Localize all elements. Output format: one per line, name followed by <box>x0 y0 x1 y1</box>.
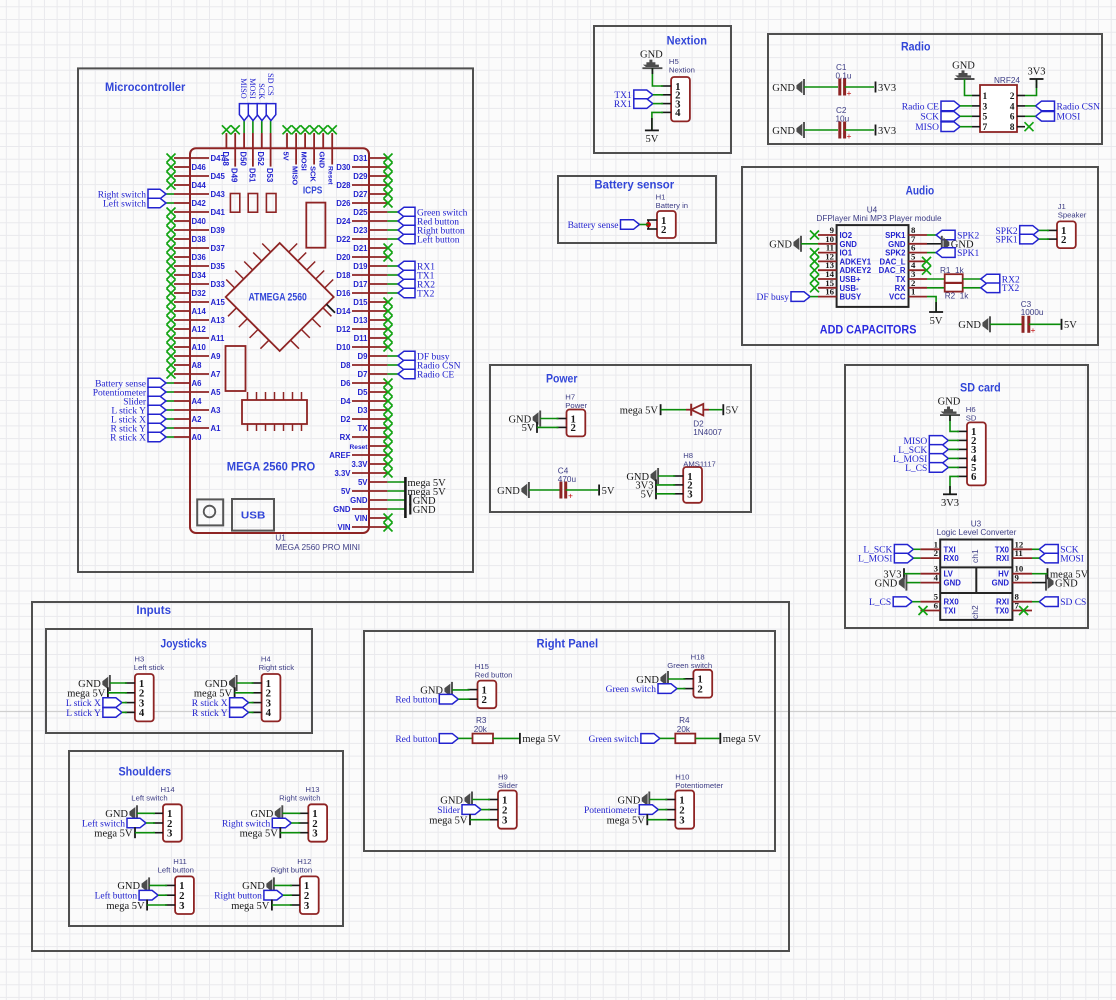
section box Inputs <box>32 602 789 951</box>
svg-text:D34: D34 <box>192 271 207 280</box>
H3 pin 1 <box>125 682 135 684</box>
diamond lower-left pin tick 2 <box>239 319 248 328</box>
no-connect U4 USB+ <box>810 275 819 284</box>
svg-text:D42: D42 <box>192 199 207 208</box>
U1 right pin D7 <box>369 373 387 375</box>
svg-text:A13: A13 <box>211 316 226 325</box>
wire to R stick X <box>166 436 174 438</box>
U1 right pin D31 <box>369 157 387 159</box>
svg-text:4: 4 <box>675 107 681 119</box>
U1 top pin MOSI <box>304 133 306 148</box>
wire C2 to 3V3 <box>845 129 874 131</box>
svg-text:3V3: 3V3 <box>1027 67 1045 78</box>
svg-text:7: 7 <box>983 123 988 133</box>
svg-text:D38: D38 <box>192 235 207 244</box>
svg-text:GND: GND <box>772 126 795 137</box>
crystal tick bottom <box>274 424 276 431</box>
U1 left pin D40 <box>174 220 190 222</box>
no-connect D40 <box>167 217 176 226</box>
power 5V (D2) <box>722 404 724 415</box>
connector H8 AMS1117 <box>683 467 702 503</box>
svg-text:D39: D39 <box>211 226 226 235</box>
wire U3 pin10 to mega 5V <box>1032 573 1048 575</box>
H9 pin 3 <box>488 819 498 821</box>
crystal tick bottom <box>292 424 294 431</box>
H13 pin 2 <box>298 822 308 824</box>
svg-text:mega 5V: mega 5V <box>429 816 468 827</box>
wire R3 to mega 5V <box>493 737 519 739</box>
svg-text:D40: D40 <box>192 217 207 226</box>
net label TX1 <box>634 90 653 100</box>
wire D52 to label <box>261 121 263 133</box>
U1 left pin D32 <box>174 292 190 294</box>
net label SCK (radio) <box>941 112 960 122</box>
net label Left button <box>398 234 415 244</box>
svg-text:mega 5V: mega 5V <box>607 816 646 827</box>
U3 pin 11 RXI <box>1012 557 1032 559</box>
wire to Potentiometer <box>166 391 174 393</box>
power GND (H13) <box>281 805 283 821</box>
H10 pin 1 <box>665 799 675 801</box>
U4 pin 4 DAC_R <box>909 269 928 271</box>
svg-text:HV: HV <box>998 570 1010 579</box>
svg-text:D14: D14 <box>336 307 351 316</box>
svg-text:Right stick: Right stick <box>259 663 295 672</box>
svg-text:Audio: Audio <box>906 185 935 197</box>
no-connect D20 <box>384 253 393 262</box>
svg-text:D3: D3 <box>358 406 369 415</box>
svg-text:mega 5V: mega 5V <box>522 734 561 745</box>
svg-text:D4: D4 <box>341 397 352 406</box>
svg-text:5V: 5V <box>645 134 658 145</box>
H8 pin 3 <box>673 493 683 495</box>
svg-text:D11: D11 <box>354 334 369 343</box>
no-connect D39 <box>167 226 176 235</box>
connector H3 Left stick <box>135 674 154 721</box>
wire GND to H7 pin1 <box>540 418 558 420</box>
svg-text:GND: GND <box>769 240 792 251</box>
svg-text:D46: D46 <box>192 163 207 172</box>
capacitor C4 470u <box>559 482 562 499</box>
U1 right pin D12 <box>352 328 387 330</box>
section box Joysticks <box>46 629 312 733</box>
wire Left button to H11 pin2 <box>158 894 167 896</box>
power mega 5V (H4) <box>234 687 236 698</box>
no-connect D4 <box>384 397 393 406</box>
wire Green switch to R4 <box>660 737 675 739</box>
wire D53 to label <box>270 121 272 133</box>
U1 internal rect 2 <box>248 194 257 213</box>
wire GND to H13 pin1 <box>282 812 300 814</box>
svg-text:ADKEY2: ADKEY2 <box>840 266 872 275</box>
net label MOSI <box>248 104 258 121</box>
net label L_SCK <box>929 445 948 455</box>
no-connect D49 <box>231 125 240 134</box>
U3 pin 1 TXI <box>920 548 940 550</box>
wire GND to H3 pin1 <box>110 682 127 684</box>
connector H13 Right switch <box>308 804 327 841</box>
svg-text:mega 5V: mega 5V <box>67 689 106 700</box>
diamond lower-right pin tick 2 <box>312 319 321 328</box>
svg-text:A3: A3 <box>211 406 222 415</box>
wire mega 5V to H13 pin3 <box>280 832 300 834</box>
svg-text:R stick Y: R stick Y <box>192 709 228 719</box>
svg-text:Green switch: Green switch <box>667 661 712 670</box>
svg-text:D52: D52 <box>256 152 265 167</box>
svg-text:MOSI: MOSI <box>248 78 257 99</box>
power mega 5V (H3) <box>107 687 109 698</box>
net label Radio CSN <box>1036 101 1055 111</box>
power GND (C3) <box>989 316 991 332</box>
H15 pin 2 <box>468 698 478 700</box>
wire to L stick X <box>166 418 174 420</box>
net label Red button (R3) <box>439 734 458 744</box>
net label SD CS <box>266 104 276 121</box>
no-connect D3 <box>384 406 393 415</box>
svg-text:GND: GND <box>992 579 1010 588</box>
power GND (H8) <box>657 468 659 484</box>
crystal tick top <box>256 392 258 400</box>
U1 internal rect 3 <box>266 194 276 213</box>
wire D50 to label <box>243 121 245 133</box>
resistor R4 20k <box>675 734 695 744</box>
svg-text:0.1u: 0.1u <box>836 72 852 81</box>
svg-text:Battery sensor: Battery sensor <box>594 179 674 191</box>
U1 left pin A0 <box>174 436 190 438</box>
wire D2 to 5V <box>709 409 722 411</box>
U1 top pin SCK <box>313 133 315 148</box>
no-connect A15 <box>167 298 176 307</box>
push button circle <box>204 506 216 518</box>
U1 left pin A3 <box>174 409 209 411</box>
connector H9 Slider <box>498 791 517 829</box>
NRF24 pin 3 <box>972 105 980 107</box>
H7 pin 1 <box>557 418 567 420</box>
no-connect D5 <box>384 388 393 397</box>
H6 pin 1 <box>957 430 967 432</box>
svg-text:D49: D49 <box>230 168 239 183</box>
wire to GND <box>387 508 405 510</box>
svg-text:GND: GND <box>840 240 858 249</box>
svg-text:MISO: MISO <box>239 78 248 99</box>
power GND (H14) <box>136 805 138 821</box>
no-connect Reset <box>328 125 337 134</box>
wire to Radio CE <box>387 373 398 375</box>
svg-text:2: 2 <box>661 224 666 236</box>
diamond lower-left pin tick 1 <box>228 308 237 317</box>
svg-text:A1: A1 <box>211 424 222 433</box>
H11 pin 2 <box>165 894 175 896</box>
svg-text:TX0: TX0 <box>995 607 1010 616</box>
power mega 5V (D2) <box>660 404 662 415</box>
wire TX1 to H5 pin2 <box>653 94 663 96</box>
capacitor C3 1000u <box>1022 316 1025 333</box>
svg-text:D5: D5 <box>358 388 369 397</box>
net label Red button (H15) <box>439 694 458 704</box>
no-connect D47 <box>167 154 176 163</box>
svg-text:VIN: VIN <box>338 523 351 532</box>
net label Red button <box>398 216 415 226</box>
connector H18 Green switch <box>693 670 712 698</box>
wire 3V3 to H8 pin2 <box>656 484 675 486</box>
connector H5 Nextion <box>671 77 690 121</box>
svg-text:ATMEGA 2560: ATMEGA 2560 <box>249 291 307 303</box>
svg-text:TXI: TXI <box>944 607 956 616</box>
diamond lower-left pin tick 3 <box>250 329 259 338</box>
svg-text:ch2: ch2 <box>970 605 980 619</box>
wire C3 to 5V <box>1029 323 1061 325</box>
svg-text:SD CS: SD CS <box>266 73 275 96</box>
H7 pin 2 <box>557 426 567 428</box>
diamond upper-left pin tick 5 <box>226 280 235 289</box>
svg-text:Power: Power <box>546 373 578 385</box>
svg-text:USB: USB <box>241 510 266 522</box>
net label SCK (U3) <box>1039 545 1058 555</box>
U3 band divider 2 <box>940 592 1012 594</box>
wire RX1 to H5 pin3 <box>653 103 663 105</box>
svg-text:VIN: VIN <box>355 514 368 523</box>
no-connect AREF <box>384 451 393 460</box>
svg-text:SD CS: SD CS <box>1060 598 1086 608</box>
svg-text:ch1: ch1 <box>970 549 980 563</box>
svg-text:mega 5V: mega 5V <box>106 901 145 912</box>
wire DF busy to BUSY <box>810 296 818 298</box>
wire to DF busy <box>387 355 398 357</box>
svg-text:D8: D8 <box>341 361 352 370</box>
no-connect D32 <box>167 289 176 298</box>
svg-text:Radio CE: Radio CE <box>902 102 939 112</box>
power 5V (C4) <box>598 485 600 496</box>
svg-text:BUSY: BUSY <box>840 293 862 302</box>
wire GND to H14 pin1 <box>137 812 155 814</box>
U3 pin 3 LV <box>920 573 940 575</box>
svg-text:Nextion: Nextion <box>669 65 695 74</box>
wire Potentiometer to H10 pin2 <box>658 809 667 811</box>
svg-text:GND: GND <box>413 505 436 516</box>
U3 pin 9 GND <box>1012 582 1032 584</box>
wire to Green switch <box>387 211 398 213</box>
net label R stick Y <box>230 708 249 718</box>
wire to Battery sense <box>166 382 174 384</box>
net label Radio CSN <box>398 360 415 370</box>
svg-text:mega 5V: mega 5V <box>194 689 233 700</box>
wire to TX2 <box>387 292 398 294</box>
diamond upper-right pin tick 1 <box>289 244 298 253</box>
svg-text:A0: A0 <box>192 433 203 442</box>
net label RX2 <box>398 279 415 289</box>
net label MISO <box>239 104 249 121</box>
H11 pin 1 <box>165 884 175 886</box>
U4 pin 1 VCC <box>909 296 928 298</box>
no-connect D45 <box>167 172 176 181</box>
U1 internal tall rect <box>226 346 246 391</box>
wire to Slider <box>166 400 174 402</box>
H14 pin 3 <box>153 832 163 834</box>
svg-text:3: 3 <box>679 815 685 827</box>
no-connect D34 <box>167 271 176 280</box>
svg-text:D22: D22 <box>336 235 351 244</box>
U1 right pin 5V <box>352 490 387 492</box>
power mega 5V (H11) <box>146 900 148 911</box>
svg-text:D2: D2 <box>341 415 352 424</box>
connector J1 Speaker <box>1057 221 1076 248</box>
H5 pin 3 <box>661 103 671 105</box>
wire GND to C2 <box>804 129 838 131</box>
svg-text:4: 4 <box>139 707 145 719</box>
wire U3 pin11 to MOSI <box>1032 557 1039 559</box>
svg-text:MISO: MISO <box>291 166 300 185</box>
no-connect U4 ADKEY2 <box>810 266 819 275</box>
svg-text:Inputs: Inputs <box>136 605 171 617</box>
no-connect MOSI <box>301 125 310 134</box>
net label Battery sense <box>148 378 166 388</box>
diamond upper-right pin tick 5 <box>325 280 334 289</box>
NRF24 pin 5 <box>972 115 980 117</box>
wire GND to NRF24 pin1 <box>965 79 973 96</box>
power GND (H10) <box>648 792 650 808</box>
power 3V3 (C2) <box>875 125 877 136</box>
wire 5V to H7 pin2 <box>537 426 559 428</box>
diamond upper-left pin tick 1 <box>262 244 271 253</box>
power GND bar <box>409 495 411 506</box>
diamond upper-left pin tick 4 <box>235 271 244 280</box>
push button square <box>197 499 223 525</box>
U1 left pin D41 <box>174 211 209 213</box>
svg-text:L_CS: L_CS <box>869 598 891 608</box>
diamond lower-right pin tick 4 <box>291 340 300 349</box>
svg-text:Red button: Red button <box>395 696 437 706</box>
wire mega 5V to H4 pin2 <box>235 692 254 694</box>
wire Red button to R3 <box>458 737 472 739</box>
U1 left pin A7 <box>174 373 209 375</box>
svg-text:IO2: IO2 <box>840 231 853 240</box>
section box Shoulders <box>69 751 343 926</box>
svg-text:D45: D45 <box>211 172 226 181</box>
section box Power <box>490 365 751 512</box>
U1 right pin D5 <box>369 391 387 393</box>
power mega 5V (H10) <box>646 814 648 825</box>
svg-text:11: 11 <box>1015 548 1023 558</box>
svg-text:D10: D10 <box>336 343 351 352</box>
svg-text:R stick X: R stick X <box>192 699 228 709</box>
U1 right pin D6 <box>352 382 387 384</box>
U1 MEGA 2560 PRO body <box>190 148 369 533</box>
vertical wire joining H1 pins <box>647 220 649 229</box>
no-connect MISO <box>292 125 301 134</box>
crystal tick top <box>292 392 294 400</box>
net label TX2 (audio) <box>981 283 1000 293</box>
U1 right pin D15 <box>369 301 387 303</box>
svg-text:LV: LV <box>944 570 954 579</box>
wire Radio CE to pin3 <box>960 105 972 107</box>
svg-text:Right switch: Right switch <box>279 794 320 803</box>
H14 pin 1 <box>153 812 163 814</box>
no-connect A9 <box>167 352 176 361</box>
power mega 5V (R3) <box>519 733 521 744</box>
no-connect D31 <box>384 154 393 163</box>
net label L_SCK (U3) <box>894 545 913 555</box>
no-connect D37 <box>167 244 176 253</box>
no-connect D29 <box>384 172 393 181</box>
diamond upper-right pin tick 2 <box>298 253 307 262</box>
U1 left pin A5 <box>174 391 209 393</box>
U1 left pin D35 <box>174 265 209 267</box>
H4 pin 3 <box>252 702 262 704</box>
no-connect U3 pin6 <box>919 606 928 615</box>
svg-text:1000u: 1000u <box>1021 308 1044 317</box>
U1 right pin D16 <box>352 292 387 294</box>
svg-text:D12: D12 <box>336 325 351 334</box>
svg-text:SPK1: SPK1 <box>885 231 906 240</box>
net label Left button (H11) <box>139 890 158 900</box>
svg-text:1N4007: 1N4007 <box>693 428 722 437</box>
no-connect D10 <box>384 343 393 352</box>
wire to Left button <box>387 238 398 240</box>
H3 pin 2 <box>125 692 135 694</box>
svg-text:mega 5V: mega 5V <box>240 829 279 840</box>
NRF24 pin 2 <box>1017 95 1025 97</box>
svg-text:RX: RX <box>895 284 907 293</box>
svg-text:20k: 20k <box>677 725 691 734</box>
net label RX2 (audio) <box>981 274 1000 284</box>
NRF24 module U-body <box>980 85 1017 132</box>
power GND bar <box>409 504 411 515</box>
U1 right pin D21 <box>369 247 387 249</box>
svg-text:D51: D51 <box>247 168 256 183</box>
no-connect D41 <box>167 208 176 217</box>
svg-text:Logic Level Converter: Logic Level Converter <box>937 528 1017 537</box>
U3 band divider 1 <box>940 566 1012 568</box>
svg-text:TX0: TX0 <box>995 545 1010 554</box>
svg-text:Right Panel: Right Panel <box>537 639 599 651</box>
svg-text:5V: 5V <box>726 406 739 417</box>
wire U3 pin12 to SCK <box>1032 548 1039 550</box>
svg-text:GND: GND <box>242 881 265 892</box>
svg-text:Radio: Radio <box>901 41 931 53</box>
power GND (U3 right) <box>1045 575 1047 591</box>
svg-text:D35: D35 <box>211 262 226 271</box>
capacitor C2 10u <box>838 122 841 139</box>
svg-text:Slider: Slider <box>498 781 518 790</box>
H18 pin 2 <box>683 688 693 690</box>
svg-text:3.3V: 3.3V <box>334 469 351 478</box>
wire L_MOSI to U3 pin2 <box>913 557 920 559</box>
svg-text:R3: R3 <box>476 716 487 725</box>
wire R1 to RX2 <box>963 278 981 280</box>
U3 middle vertical divider <box>975 567 977 593</box>
svg-text:D30: D30 <box>336 163 351 172</box>
H8 pin 1 <box>673 475 683 477</box>
svg-text:D37: D37 <box>211 244 225 253</box>
svg-text:A11: A11 <box>211 334 226 343</box>
svg-text:GND: GND <box>888 240 906 249</box>
U1 right pin VIN <box>352 526 387 528</box>
wire L stick X to H3 pin3 <box>122 702 127 704</box>
svg-text:GND: GND <box>117 881 140 892</box>
wire Red button to H15 pin2 <box>458 698 469 700</box>
svg-text:D44: D44 <box>192 181 207 190</box>
svg-text:L stick Y: L stick Y <box>66 709 101 719</box>
U3 pin 8 RXI <box>1012 601 1032 603</box>
no-connect SCK <box>310 125 319 134</box>
svg-text:D26: D26 <box>336 199 351 208</box>
svg-text:Left stick: Left stick <box>134 663 164 672</box>
net label R stick X <box>148 432 166 442</box>
no-connect U4 IO1 <box>810 248 819 257</box>
U1 top pin D51 <box>252 133 254 148</box>
svg-text:A9: A9 <box>211 352 222 361</box>
U4 pin 10 GND <box>818 243 837 245</box>
